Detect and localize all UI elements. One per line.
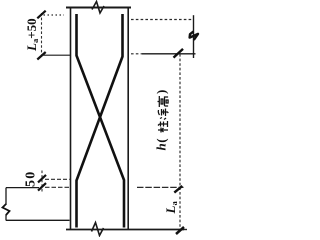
break symbol on bottom line	[92, 223, 104, 236]
column right edge	[127, 8, 129, 230]
dimension line La+50 (left top)	[41, 13, 43, 58]
bottom line dashed tail	[184, 229, 189, 231]
svg-text:h(: h(	[154, 138, 169, 151]
top beam soffit line	[66, 7, 131, 9]
extension dashed line at lower bend level	[45, 178, 70, 180]
svg-text:50: 50	[24, 171, 39, 187]
extension dashed line top right level	[131, 19, 192, 21]
dimension line 50 (left bottom)	[41, 171, 43, 194]
tick top of h dimension	[174, 49, 184, 58]
svg-text:La: La	[163, 201, 179, 215]
tick top of La+50	[37, 11, 45, 19]
char jing (net/clear)	[158, 109, 168, 120]
extension line at right bend level	[131, 53, 142, 55]
extension line at La top level right side	[137, 186, 184, 188]
tick at La bottom	[176, 227, 184, 234]
tick bottom of 50	[38, 183, 46, 191]
break symbol on right upper leader	[190, 32, 198, 41]
tick bottom of La+50	[37, 52, 45, 60]
break symbol on top line	[92, 2, 104, 14]
tick at La top / h bottom	[174, 186, 182, 193]
extension dotted line at rebar top level	[44, 14, 65, 16]
tick top of 50	[38, 175, 46, 183]
rebar bar A (top-left to bottom-right)	[77, 14, 125, 228]
char zhu (column)	[158, 121, 168, 133]
svg-text:): )	[154, 90, 169, 94]
left leader vertical	[5, 188, 7, 221]
extension line at La top level left side	[6, 187, 39, 189]
bottom support line	[66, 229, 184, 231]
extension line bottom left level	[6, 219, 70, 221]
svg-text:La+50: La+50	[24, 18, 40, 52]
right upper dimension leader	[193, 15, 195, 58]
column left edge	[70, 8, 72, 230]
rebar bar B (top-right to bottom-left)	[77, 14, 123, 228]
char gao (high)	[158, 96, 169, 107]
break symbol on left leader	[3, 204, 10, 215]
extension line at left bend level	[42, 54, 70, 56]
right dimension line h / La	[179, 54, 181, 231]
